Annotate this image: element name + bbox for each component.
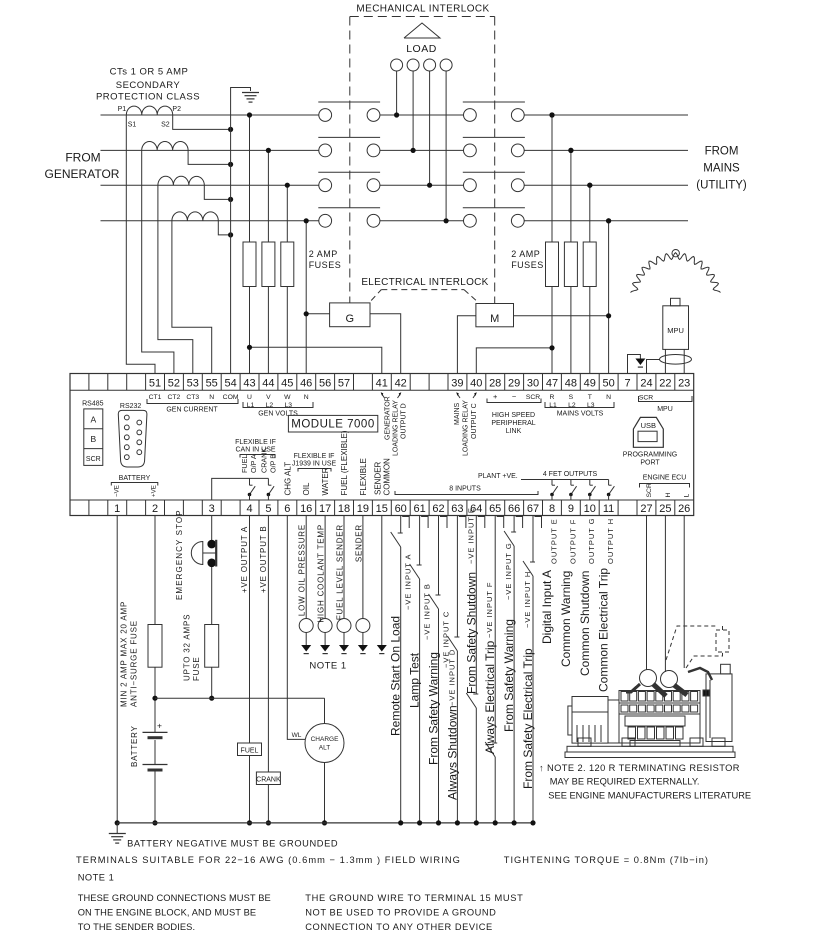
wire terminal 7 to chassis bbox=[628, 355, 641, 374]
svg-text:5: 5 bbox=[265, 503, 271, 515]
svg-text:Always Electrical Trip: Always Electrical Trip bbox=[483, 640, 497, 754]
wire input 64 upper bbox=[475, 516, 477, 695]
svg-text:MECHANICAL INTERLOCK: MECHANICAL INTERLOCK bbox=[356, 4, 489, 15]
fuse 2A mains 48 bbox=[564, 242, 577, 287]
mains contactor pole row1 bbox=[464, 109, 477, 122]
wire gen volts tap 45 bbox=[286, 185, 288, 242]
mains contactor pole row3 bbox=[464, 179, 477, 192]
svg-text:PROGRAMMING: PROGRAMMING bbox=[623, 452, 677, 459]
svg-text:28: 28 bbox=[489, 377, 501, 389]
wire input 65 lower to bus bbox=[494, 757, 496, 823]
svg-text:FUEL: FUEL bbox=[240, 455, 249, 473]
wire fuse to battery bbox=[154, 667, 156, 732]
svg-text:FUSE: FUSE bbox=[192, 656, 201, 681]
svg-text:B: B bbox=[90, 434, 96, 444]
svg-text:FLEXIBLE IF: FLEXIBLE IF bbox=[235, 439, 276, 446]
svg-text:From Safety Electrical Trip: From Safety Electrical Trip bbox=[521, 648, 535, 789]
svg-text:ON THE ENGINE BLOCK, AND MUST: ON THE ENGINE BLOCK, AND MUST BE bbox=[78, 908, 257, 918]
svg-text:SENDER: SENDER bbox=[373, 461, 382, 495]
svg-text:MAINS VOLTS: MAINS VOLTS bbox=[557, 411, 604, 418]
svg-text:−VE INPUT H: −VE INPUT H bbox=[523, 571, 532, 628]
MPU gear ring bbox=[631, 253, 721, 293]
load terminal circle 1 bbox=[391, 59, 403, 71]
sender circle 16 bbox=[299, 619, 313, 633]
svg-text:N: N bbox=[209, 394, 214, 401]
sender ground 18 bbox=[343, 633, 345, 646]
wire row3 right bbox=[524, 184, 688, 186]
earth symbol battery negative bbox=[109, 833, 126, 835]
svg-text:42: 42 bbox=[395, 377, 407, 389]
svg-text:+VE OUTPUT B: +VE OUTPUT B bbox=[259, 526, 268, 593]
input switch blade 61 bbox=[410, 564, 420, 579]
input leader hook 63 bbox=[459, 517, 466, 529]
wire output B to CRANK bbox=[267, 516, 269, 773]
node N tap on row4 bbox=[606, 218, 611, 223]
wire row2 right bbox=[524, 149, 688, 151]
node R tap on row1 bbox=[549, 112, 554, 117]
svg-text:FLEXIBLE IF: FLEXIBLE IF bbox=[294, 453, 335, 460]
svg-text:+: + bbox=[157, 721, 162, 731]
svg-text:43: 43 bbox=[243, 377, 255, 389]
wire CT2 S2 to COM bbox=[188, 150, 231, 164]
svg-text:NOT BE USED TO PROVIDE A GROUN: NOT BE USED TO PROVIDE A GROUND bbox=[305, 908, 496, 918]
wire battery negative stub to earth bbox=[116, 823, 118, 833]
input switch blade 60 bbox=[391, 532, 401, 547]
svg-text:SCR: SCR bbox=[639, 395, 653, 402]
svg-text:N: N bbox=[606, 394, 611, 401]
generator contactor pole row2 bbox=[319, 144, 332, 157]
wire M coil to terminal 39 bbox=[457, 316, 476, 374]
bracket MAINS VOLTS bbox=[545, 402, 614, 408]
svg-text:OUTPUT C: OUTPUT C bbox=[471, 403, 478, 439]
fuse 2A mains 49 bbox=[583, 242, 596, 287]
svg-text:WATER: WATER bbox=[321, 467, 330, 495]
svg-text:P1: P1 bbox=[118, 106, 127, 113]
wire load drop 4 bbox=[445, 71, 447, 221]
label MODULE 7000 box bbox=[288, 415, 377, 432]
wire input 61 lower to bus bbox=[419, 579, 421, 823]
svg-text:ANTI−SURGE FUSE: ANTI−SURGE FUSE bbox=[130, 620, 139, 707]
svg-text:PERIPHERAL: PERIPHERAL bbox=[491, 420, 535, 427]
wire mains neutral tap 50 bbox=[608, 221, 610, 374]
svg-text:NOTE 1: NOTE 1 bbox=[309, 661, 346, 672]
wire mains volts tap 47 bbox=[551, 115, 553, 242]
svg-text:2 AMP: 2 AMP bbox=[511, 249, 540, 259]
wire CT3 S1 to terminal bbox=[158, 185, 193, 373]
current transformer CT1 bbox=[126, 106, 172, 115]
sender circle 17 bbox=[318, 619, 332, 633]
wire input 63 upper bbox=[456, 516, 458, 638]
wire terminal 17 to sender bbox=[324, 516, 326, 619]
svg-text:47: 47 bbox=[546, 377, 558, 389]
svg-text:51: 51 bbox=[149, 377, 161, 389]
wire terminal 2 to fuse bbox=[154, 516, 156, 625]
svg-text:From Safety Warning: From Safety Warning bbox=[427, 652, 441, 765]
load triangle bbox=[404, 23, 440, 38]
svg-text:49: 49 bbox=[584, 377, 596, 389]
svg-text:FUSES: FUSES bbox=[511, 260, 544, 270]
svg-text:FLEXIBLE: FLEXIBLE bbox=[359, 458, 368, 495]
svg-text:GENERATOR: GENERATOR bbox=[45, 167, 120, 181]
input switch blade 67 bbox=[523, 561, 533, 576]
svg-text:55: 55 bbox=[206, 377, 218, 389]
wire row2 middle bbox=[380, 149, 464, 151]
input leader hook 65 bbox=[497, 517, 504, 529]
chassis ground near MPU bbox=[635, 359, 645, 366]
svg-text:CT2: CT2 bbox=[167, 394, 180, 401]
MPU body bbox=[663, 306, 689, 350]
svg-text:2 AMP: 2 AMP bbox=[309, 249, 338, 259]
terminal dividers top bbox=[88, 374, 90, 391]
wire terminal 1 to ground bus bbox=[116, 516, 118, 823]
svg-text:LOADING RELAY: LOADING RELAY bbox=[393, 400, 400, 456]
svg-text:CAN IN USE: CAN IN USE bbox=[235, 447, 275, 454]
wire CT2 S1 to terminal bbox=[142, 150, 174, 373]
svg-text:FUSES: FUSES bbox=[309, 260, 342, 270]
svg-text:OUTPUT D: OUTPUT D bbox=[401, 403, 408, 439]
svg-text:10: 10 bbox=[584, 503, 596, 515]
svg-text:60: 60 bbox=[395, 503, 407, 515]
wire load drop 2 bbox=[412, 71, 414, 150]
battery negative bus bbox=[117, 822, 533, 824]
svg-text:OUTPUT E: OUTPUT E bbox=[550, 518, 559, 564]
svg-text:COMMON: COMMON bbox=[382, 458, 391, 496]
FET output contact F bbox=[570, 480, 572, 486]
svg-text:46: 46 bbox=[300, 377, 312, 389]
terminal strip bottom row line bbox=[70, 499, 694, 501]
svg-text:FROM: FROM bbox=[705, 146, 739, 158]
input leader hook 62 bbox=[440, 517, 447, 529]
svg-text:OIL: OIL bbox=[302, 482, 311, 495]
wire battery to bus bbox=[154, 772, 156, 823]
svg-text:3: 3 bbox=[209, 503, 215, 515]
relay contact output B bbox=[267, 478, 269, 485]
fuse 2A gen 43 bbox=[243, 242, 256, 287]
svg-text:O/P A: O/P A bbox=[249, 454, 258, 473]
bracket GEN VOLTS bbox=[243, 402, 313, 408]
wire input 66 lower to bus bbox=[513, 546, 515, 823]
svg-text:−VE INPUT A: −VE INPUT A bbox=[404, 553, 413, 610]
charge alternator circle bbox=[305, 724, 344, 763]
wire input 64 lower to bus bbox=[475, 708, 477, 823]
svg-text:17: 17 bbox=[319, 503, 331, 515]
svg-text:SCR: SCR bbox=[86, 456, 101, 463]
RS485 connector bbox=[84, 409, 103, 466]
generator contactor pole row3 bbox=[319, 179, 332, 192]
generator neutral line N (row 4) bbox=[101, 220, 319, 222]
svg-text:22: 22 bbox=[659, 377, 671, 389]
svg-text:+VE: +VE bbox=[150, 485, 157, 497]
svg-text:MODULE 7000: MODULE 7000 bbox=[291, 419, 374, 431]
FUEL solenoid box bbox=[238, 743, 262, 756]
svg-text:4 FET OUTPUTS: 4 FET OUTPUTS bbox=[543, 471, 598, 478]
arrows terminal 41 42 bbox=[382, 394, 385, 399]
svg-text:29: 29 bbox=[508, 377, 520, 389]
wire gen neutral tap 46 bbox=[305, 221, 307, 374]
terminal strip top row line bbox=[70, 389, 694, 391]
wire CT1 S2 to COM bbox=[173, 115, 231, 129]
wire e-stop to fuse bbox=[211, 567, 213, 625]
svg-text:−VE: −VE bbox=[114, 485, 121, 497]
svg-text:65: 65 bbox=[489, 503, 501, 515]
load terminal circle 3 bbox=[424, 59, 436, 71]
svg-text:V: V bbox=[266, 394, 271, 401]
contactor coil G box bbox=[330, 303, 370, 327]
svg-text:From Safety Warning: From Safety Warning bbox=[502, 619, 516, 732]
svg-text:52: 52 bbox=[168, 377, 180, 389]
wire input 62 upper bbox=[438, 516, 440, 596]
wire FUEL to bus bbox=[249, 756, 251, 823]
svg-text:PLANT +VE.: PLANT +VE. bbox=[478, 473, 518, 480]
svg-text:−VE INPUT F: −VE INPUT F bbox=[485, 582, 494, 639]
svg-text:7: 7 bbox=[624, 377, 630, 389]
svg-text:S: S bbox=[569, 394, 574, 401]
FET output contact H bbox=[608, 480, 610, 486]
svg-text:UPTO 32 AMPS: UPTO 32 AMPS bbox=[183, 614, 192, 681]
svg-text:PROTECTION CLASS: PROTECTION CLASS bbox=[96, 92, 200, 103]
engine generator set drawing bbox=[567, 746, 733, 752]
wire terminal 19 to sender bbox=[362, 516, 364, 619]
wire plant supply horizontal bbox=[155, 697, 325, 699]
svg-text:BATTERY NEGATIVE MUST BE GROUN: BATTERY NEGATIVE MUST BE GROUNDED bbox=[127, 839, 338, 849]
wire load drop 3 bbox=[429, 71, 431, 185]
load terminal circle 2 bbox=[407, 59, 419, 71]
svg-text:8: 8 bbox=[549, 503, 555, 515]
svg-text:25: 25 bbox=[659, 503, 671, 515]
contactor coil M box bbox=[476, 304, 514, 327]
svg-text:Common Warning: Common Warning bbox=[559, 571, 573, 667]
svg-text:ALT: ALT bbox=[319, 745, 330, 752]
input leader hook 67 bbox=[535, 517, 542, 529]
current transformer CT3 bbox=[158, 176, 204, 185]
svg-text:SCR: SCR bbox=[526, 394, 540, 401]
svg-text:−VE INPUT G: −VE INPUT G bbox=[504, 542, 513, 600]
svg-text:G: G bbox=[346, 313, 355, 325]
svg-text:23: 23 bbox=[678, 377, 690, 389]
svg-text:T: T bbox=[588, 394, 592, 401]
generator phase line L1 (row 1) bbox=[101, 114, 319, 116]
svg-text:CT1: CT1 bbox=[149, 394, 162, 401]
svg-text:30: 30 bbox=[527, 377, 539, 389]
svg-text:GEN VOLTS: GEN VOLTS bbox=[258, 411, 298, 418]
wire mains volts tap 49 bbox=[589, 185, 591, 242]
svg-text:LOW OIL PRESSURE: LOW OIL PRESSURE bbox=[298, 524, 307, 616]
bracket high speed link bbox=[487, 399, 541, 403]
mains contactor pole row2 bbox=[464, 144, 477, 157]
svg-text:48: 48 bbox=[565, 377, 577, 389]
load terminal circle 4 bbox=[440, 59, 452, 71]
svg-text:R: R bbox=[550, 394, 555, 401]
wire FET output feed bbox=[521, 479, 609, 481]
svg-text:THESE GROUND CONNECTIONS MUST: THESE GROUND CONNECTIONS MUST BE bbox=[78, 893, 271, 903]
svg-text:CHARGE: CHARGE bbox=[311, 736, 339, 743]
svg-text:9: 9 bbox=[568, 503, 574, 515]
sender ground 16 bbox=[305, 633, 307, 646]
wire fuse 3 to junction bbox=[211, 667, 213, 698]
svg-text:44: 44 bbox=[262, 377, 274, 389]
svg-text:63: 63 bbox=[451, 503, 463, 515]
generator phase line L3 (row 3) bbox=[101, 184, 319, 186]
svg-text:8 INPUTS: 8 INPUTS bbox=[449, 486, 481, 493]
fuse anti-surge on wire 2 bbox=[148, 625, 162, 668]
svg-text:COM: COM bbox=[223, 394, 239, 401]
svg-text:56: 56 bbox=[319, 377, 331, 389]
svg-text:61: 61 bbox=[413, 503, 425, 515]
svg-text:OUTPUT F: OUTPUT F bbox=[568, 519, 577, 564]
svg-text:OUTPUT H: OUTPUT H bbox=[606, 518, 615, 564]
mechanical interlock dashed frame bbox=[350, 16, 495, 18]
wire terminal 25 to engine bbox=[664, 516, 666, 673]
wire input 65 upper bbox=[494, 516, 496, 744]
svg-text:MPU: MPU bbox=[657, 406, 673, 413]
svg-text:TIGHTENING TORQUE = 0.8Nm (7lb: TIGHTENING TORQUE = 0.8Nm (7lb−in) bbox=[504, 855, 709, 865]
node S tap on row2 bbox=[568, 148, 573, 153]
wire CT3 S2 to COM bbox=[204, 185, 230, 199]
svg-text:SENDER: SENDER bbox=[354, 524, 363, 562]
wire CT4 S2 to COM bbox=[218, 221, 230, 235]
gear tooth marker circle bbox=[672, 250, 679, 257]
svg-text:W: W bbox=[284, 394, 291, 401]
wire row3 middle bbox=[380, 184, 464, 186]
svg-text:Common Electrical Trip: Common Electrical Trip bbox=[597, 568, 611, 692]
wire COM / terminal 54 riser with earth bbox=[231, 88, 251, 374]
wire terminal 40 to mains R tap bbox=[476, 348, 552, 374]
svg-text:MAINS: MAINS bbox=[703, 163, 740, 175]
emergency stop mushroom bbox=[191, 542, 203, 565]
terminal dividers bottom bbox=[88, 500, 90, 516]
svg-text:FROM: FROM bbox=[65, 151, 100, 165]
sender ground 19 bbox=[362, 633, 364, 646]
svg-text:6: 6 bbox=[284, 503, 290, 515]
wire input 67 lower to bus bbox=[532, 576, 534, 823]
svg-text:N: N bbox=[304, 394, 309, 401]
arrows terminal 39 40 bbox=[457, 394, 460, 399]
svg-text:CRANK: CRANK bbox=[256, 777, 281, 784]
svg-text:↑ NOTE 2. 120 R TERMINATING RE: ↑ NOTE 2. 120 R TERMINATING RESISTOR bbox=[539, 763, 740, 773]
svg-text:50: 50 bbox=[602, 377, 614, 389]
svg-text:CONNECTION TO ANY OTHER DEVICE: CONNECTION TO ANY OTHER DEVICE bbox=[305, 922, 493, 932]
svg-text:RS485: RS485 bbox=[82, 401, 104, 408]
mains contactor pole row4 bbox=[464, 214, 477, 227]
svg-text:USB: USB bbox=[641, 421, 656, 430]
wire output A to FUEL bbox=[249, 516, 251, 744]
svg-text:19: 19 bbox=[357, 503, 369, 515]
wire G coil to gen neutral bbox=[306, 313, 329, 315]
svg-text:H: H bbox=[665, 493, 672, 498]
wire gen volts tap 43 bbox=[249, 115, 251, 242]
svg-text:11: 11 bbox=[603, 503, 614, 515]
svg-text:LOAD: LOAD bbox=[406, 43, 437, 55]
svg-text:TERMINALS SUITABLE FOR 22−16 A: TERMINALS SUITABLE FOR 22−16 AWG (0.6mm … bbox=[76, 855, 461, 865]
svg-text:EMERGENCY STOP: EMERGENCY STOP bbox=[175, 509, 184, 600]
relay contact output A bbox=[249, 478, 251, 485]
svg-text:MAY BE REQUIRED EXTERNALLY.: MAY BE REQUIRED EXTERNALLY. bbox=[550, 777, 700, 787]
wire terminal 18 to sender bbox=[343, 516, 345, 619]
wire CT4 S1 to terminal bbox=[172, 221, 212, 374]
svg-text:CTs 1 OR 5 AMP: CTs 1 OR 5 AMP bbox=[110, 67, 189, 78]
svg-text:U: U bbox=[247, 394, 252, 401]
fuse 2A gen 45 bbox=[281, 242, 294, 287]
svg-text:Remote Start On Load: Remote Start On Load bbox=[389, 616, 403, 736]
svg-text:S2: S2 bbox=[161, 122, 170, 129]
svg-text:53: 53 bbox=[187, 377, 199, 389]
svg-text:ELECTRICAL INTERLOCK: ELECTRICAL INTERLOCK bbox=[361, 277, 488, 288]
generator contactor pole row4 bbox=[319, 214, 332, 227]
svg-text:CT3: CT3 bbox=[186, 394, 199, 401]
wire row1 contactor gap to mains contactor bbox=[380, 114, 464, 116]
current transformer CT2 bbox=[142, 142, 188, 151]
sender circle 18 bbox=[337, 619, 351, 633]
wire row4 middle bbox=[380, 220, 464, 222]
svg-text:MPU: MPU bbox=[667, 326, 684, 335]
svg-text:MIN 2 AMP MAX 20 AMP: MIN 2 AMP MAX 20 AMP bbox=[120, 601, 129, 707]
svg-text:27: 27 bbox=[640, 503, 652, 515]
input switch blade 62 bbox=[429, 594, 439, 609]
svg-text:−VE INPUT D: −VE INPUT D bbox=[447, 649, 456, 706]
svg-text:Common Shutdown: Common Shutdown bbox=[578, 571, 592, 676]
svg-text:39: 39 bbox=[451, 377, 463, 389]
wire terminal 24 to shield bbox=[647, 360, 660, 374]
svg-text:Lamp Test: Lamp Test bbox=[408, 652, 422, 708]
svg-text:24: 24 bbox=[640, 377, 652, 389]
svg-text:−VE INPUT E: −VE INPUT E bbox=[466, 507, 475, 564]
fuse 2A gen 44 bbox=[262, 242, 275, 287]
current transformer CT4 bbox=[172, 212, 218, 221]
svg-text:Digital Input A: Digital Input A bbox=[540, 570, 554, 644]
svg-text:TO THE SENDER BODIES.: TO THE SENDER BODIES. bbox=[78, 922, 195, 932]
wire row1 mains to utility bbox=[524, 114, 688, 116]
wire input 67 upper bbox=[532, 516, 534, 563]
svg-text:BATTERY: BATTERY bbox=[119, 475, 151, 482]
svg-text:OUTPUT G: OUTPUT G bbox=[587, 517, 596, 564]
svg-text:LOADING RELAY: LOADING RELAY bbox=[463, 400, 470, 456]
svg-text:From Safety Shutdown: From Safety Shutdown bbox=[464, 572, 478, 694]
input switch blade 63 bbox=[447, 636, 457, 651]
svg-text:26: 26 bbox=[678, 503, 690, 515]
input leader hook 61 bbox=[421, 517, 428, 529]
wire G coil to terminal 42 bbox=[370, 314, 401, 374]
MPU cable shield ellipse bbox=[660, 355, 692, 365]
svg-text:−VE INPUT B: −VE INPUT B bbox=[423, 583, 432, 640]
svg-text:FUEL (FLEXIBLE): FUEL (FLEXIBLE) bbox=[340, 430, 349, 495]
CRANK solenoid box bbox=[256, 772, 280, 785]
svg-text:FUEL LEVEL SENDER: FUEL LEVEL SENDER bbox=[336, 524, 345, 620]
input leader hook 66 bbox=[516, 517, 523, 529]
svg-text:1: 1 bbox=[114, 503, 120, 515]
svg-text:16: 16 bbox=[300, 503, 312, 515]
svg-text:THE GROUND WIRE TO TERMINAL 15: THE GROUND WIRE TO TERMINAL 15 MUST bbox=[305, 893, 523, 903]
svg-text:SECONDARY: SECONDARY bbox=[116, 80, 181, 91]
wire to charge alt B+ bbox=[324, 698, 326, 723]
RS232 DB9 connector bbox=[118, 410, 147, 467]
wire input 63 lower to bus bbox=[456, 651, 458, 823]
svg-text:2: 2 bbox=[152, 503, 158, 515]
svg-text:S1: S1 bbox=[128, 122, 137, 129]
USB programming port icon bbox=[633, 417, 663, 447]
battery symbol bbox=[143, 731, 168, 733]
wire terminal 41 to gen L1 tap bbox=[250, 347, 382, 373]
wire terminal 15 sender common ground bbox=[381, 516, 383, 646]
node T tap on row3 bbox=[587, 183, 592, 188]
svg-text:Always Shutdown: Always Shutdown bbox=[445, 705, 459, 800]
svg-text:66: 66 bbox=[508, 503, 520, 515]
wire charge alt to bus bbox=[324, 763, 326, 823]
svg-text:WL: WL bbox=[292, 732, 302, 739]
svg-text:SEE ENGINE MANUFACTURERS LITER: SEE ENGINE MANUFACTURERS LITERATURE bbox=[548, 791, 751, 801]
sender circle 19 bbox=[356, 619, 370, 633]
svg-text:41: 41 bbox=[376, 377, 388, 389]
svg-text:+: + bbox=[493, 392, 498, 401]
